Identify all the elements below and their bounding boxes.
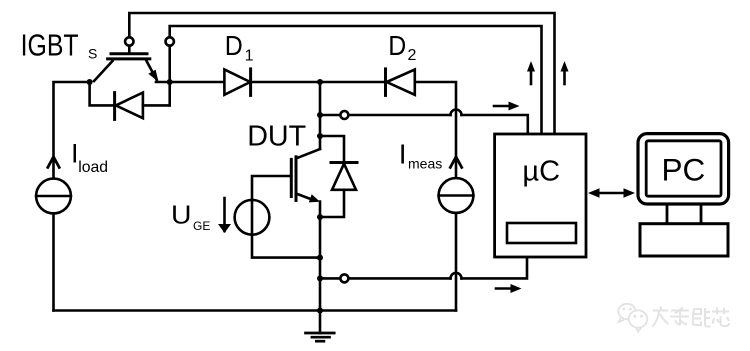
wire U_GE return	[252, 235, 320, 258]
source I_meas circle	[439, 178, 474, 213]
terminal circle gate IGBT_S	[125, 37, 133, 45]
wire bottom sense to circle	[320, 277, 340, 280]
diode freewheel IGBT_S triangle	[116, 93, 143, 119]
transistor IGBT_S emitter arrow head	[148, 70, 158, 82]
wire emitter sense vertical	[168, 46, 171, 106]
diode D2 triangle	[387, 70, 415, 95]
arrow up left	[530, 70, 533, 84]
wire DUT diode branch top	[320, 136, 344, 163]
wire mid sense run	[348, 114, 450, 117]
wire collector vertical DUT	[319, 82, 322, 149]
node dot DUT emitter junction	[317, 214, 323, 220]
wire gate stem IGBT_S	[128, 46, 131, 53]
arrow right into uC bottom	[496, 287, 513, 290]
transistor DUT gate bar	[290, 159, 293, 196]
ground	[319, 311, 322, 334]
wire mid sense to circle	[320, 114, 340, 117]
PC neck	[666, 204, 669, 224]
node dot collector IGBT_S	[87, 79, 93, 85]
terminal circle emitter sense IGBT_S	[166, 37, 174, 45]
node dot ground junction	[317, 308, 323, 314]
node dot U_GE return	[317, 255, 323, 261]
terminal circle bottom sense	[340, 274, 348, 282]
source I_meas chord	[439, 194, 474, 197]
diode D1 triangle	[224, 70, 250, 95]
wire freewheel diode branch left	[90, 82, 115, 105]
svg-text:GE: GE	[193, 219, 210, 233]
svg-text:2: 2	[408, 47, 417, 64]
wire I_meas to bottom rail	[455, 213, 458, 311]
source I_load chord	[36, 195, 71, 198]
box uC	[495, 134, 586, 257]
diode D2 cathode bar	[384, 69, 387, 96]
uC inner slot	[507, 223, 576, 243]
wire freewheel diode branch right	[143, 104, 170, 107]
wire DUT emitter vertical	[319, 202, 322, 311]
source U_GE chord	[251, 200, 254, 235]
wire top outer rail (IGBT_S gate to uC)	[129, 13, 554, 134]
diode DUT triangle	[332, 164, 356, 190]
transistor DUT body bar	[295, 157, 298, 201]
svg-text:meas: meas	[408, 156, 442, 172]
watermark text	[653, 307, 730, 328]
arrow double uC-PC	[596, 192, 627, 195]
arrow right into uC top	[494, 105, 511, 108]
svg-text:µC: µC	[522, 156, 560, 188]
source I_load circle	[36, 179, 71, 214]
svg-text:D: D	[388, 30, 406, 61]
wire I_load to bottom rail	[52, 213, 55, 310]
svg-text:1: 1	[245, 47, 254, 64]
diode D1 cathode bar	[249, 69, 252, 96]
node dot DUT collector	[317, 133, 323, 139]
wire left rail top segment	[54, 82, 91, 179]
transistor DUT emitter diagonal	[296, 194, 314, 201]
source U_GE circle	[235, 200, 270, 235]
svg-text:U: U	[171, 200, 192, 230]
transistor IGBT_S collector diagonal	[94, 61, 113, 81]
PC base	[640, 224, 728, 256]
watermark logo	[618, 304, 647, 332]
transistor DUT emitter arrow head	[309, 194, 320, 202]
wire DUT diode branch bottom	[320, 190, 344, 217]
wire bottom sense into uC bottom	[462, 257, 528, 278]
wire bottom sense run	[348, 277, 450, 280]
wire hop over I_meas branch	[451, 110, 462, 115]
transistor IGBT_S gate plate	[111, 52, 147, 55]
svg-text:load: load	[78, 159, 108, 176]
svg-text:I: I	[399, 139, 407, 170]
PC monitor outer	[638, 134, 729, 204]
node dot D1 top	[317, 79, 323, 85]
PC monitor inner	[646, 141, 721, 196]
wire mid sense into uC top	[462, 115, 528, 134]
arrow I_meas chevron	[450, 157, 461, 168]
node dot mid sense	[317, 112, 323, 118]
svg-text:D: D	[225, 30, 243, 61]
wire node to D2	[320, 81, 386, 84]
wire D2 to I_meas branch	[415, 82, 456, 178]
svg-text:S: S	[88, 46, 97, 62]
transistor DUT collector diagonal	[296, 149, 320, 159]
transistor IGBT_S emitter diagonal	[146, 60, 157, 80]
terminal circle mid sense	[340, 111, 348, 119]
diode DUT cathode bar	[331, 161, 357, 164]
wire U_GE gate lead	[252, 176, 291, 200]
wire bottom rail	[54, 309, 457, 312]
transistor IGBT_S body bar	[108, 57, 150, 60]
node dot emitter IGBT_S	[167, 79, 173, 85]
arrow U_GE down	[223, 198, 226, 231]
wire top inner rail (IGBT_S emitter sense to uC)	[170, 26, 542, 134]
arrow up right	[563, 70, 566, 84]
node dot bottom sense	[317, 275, 323, 281]
svg-text:IGBT: IGBT	[21, 28, 79, 63]
wire hop bottom over I_meas branch	[451, 273, 462, 279]
wire emitter run to D1	[156, 81, 224, 84]
svg-text:DUT: DUT	[247, 121, 306, 153]
arrow I_load chevron	[48, 157, 59, 168]
wire D1 to node	[251, 81, 320, 84]
svg-text:PC: PC	[662, 152, 706, 188]
diode freewheel IGBT_S cathode bar	[113, 93, 116, 120]
